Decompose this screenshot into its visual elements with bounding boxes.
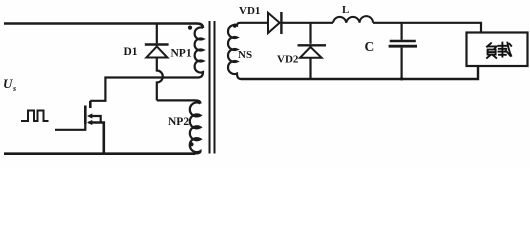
- svg-text:U: U: [3, 76, 13, 91]
- svg-text:NS: NS: [238, 49, 252, 61]
- svg-text:VD2: VD2: [277, 53, 299, 65]
- svg-text:NP1: NP1: [171, 48, 192, 60]
- svg-text:VD1: VD1: [239, 5, 260, 17]
- svg-text:D1: D1: [124, 46, 138, 58]
- svg-text:NP2: NP2: [168, 116, 189, 128]
- svg-text:L: L: [342, 4, 349, 16]
- svg-text:C: C: [365, 39, 375, 54]
- svg-text:s: s: [12, 84, 16, 93]
